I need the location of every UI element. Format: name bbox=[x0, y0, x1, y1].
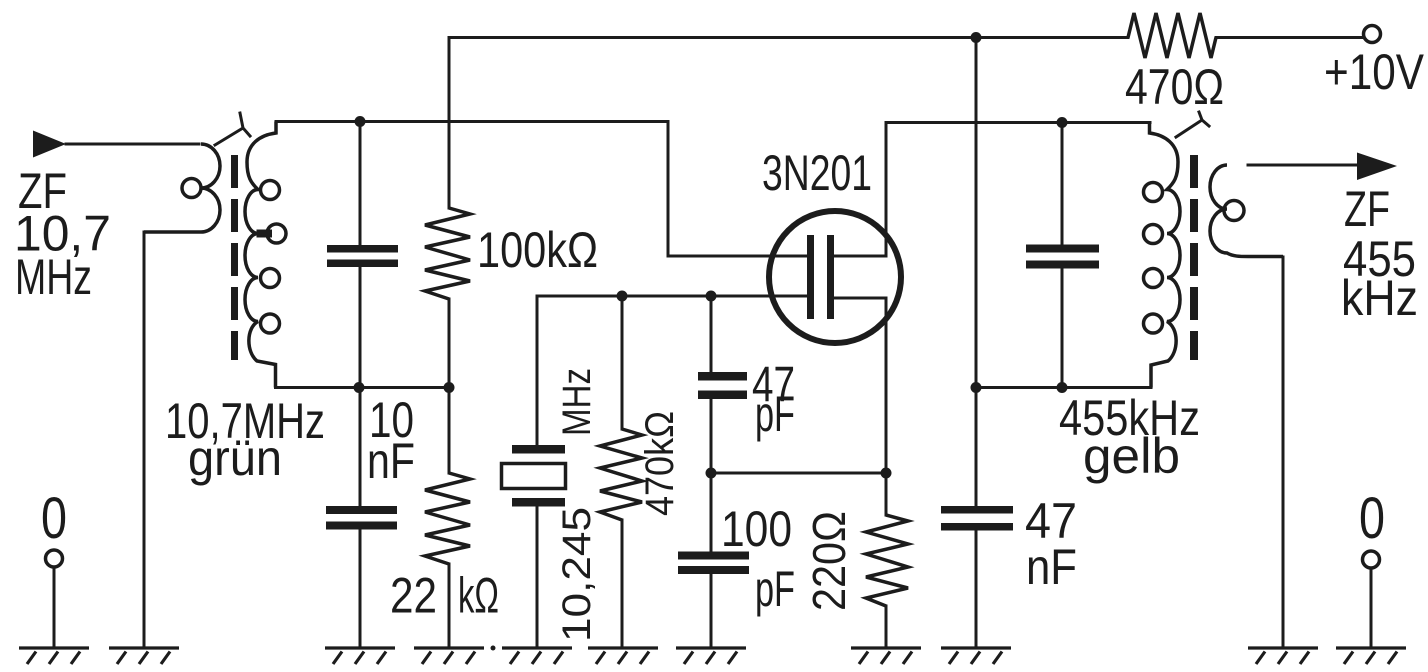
node dot source bus right bbox=[881, 468, 892, 479]
ground 4 bbox=[414, 648, 484, 664]
crystal Q1 plate bottom bbox=[512, 498, 565, 507]
wire source bus bbox=[711, 472, 886, 475]
wire 220R upper lead bbox=[885, 473, 888, 515]
wire 10nF upper lead bbox=[359, 388, 362, 507]
wire 47pF lower lead bbox=[710, 399, 713, 473]
ground 10 bbox=[1248, 648, 1318, 664]
capacitor 10nF plate bottom bbox=[326, 522, 397, 530]
wire left tank bottom bus bbox=[276, 386, 450, 389]
svg-text:pF: pF bbox=[755, 561, 795, 617]
transformer TR1 secondary loop 3 bbox=[261, 269, 280, 288]
node dot divider bbox=[444, 382, 455, 393]
ground 7 bbox=[676, 648, 746, 664]
resistor 470Ω bbox=[1128, 13, 1216, 58]
node dot 47pF top bbox=[706, 291, 717, 302]
node dot 10nF top bbox=[354, 382, 365, 393]
wire supply drop to 100k bbox=[448, 38, 451, 209]
transistor 3N201 channel bar bbox=[827, 235, 834, 319]
capacitor right tank plate bottom bbox=[1026, 261, 1099, 269]
terminal 0 left circle bbox=[46, 550, 63, 567]
capacitor 47nF plate bottom bbox=[941, 523, 1013, 531]
wire right tank cap lower lead bbox=[1061, 268, 1064, 388]
wire terminal 0 right to ground bbox=[1370, 569, 1373, 647]
node dot supply tank bottom bbox=[971, 382, 982, 393]
svg-text:10,245: 10,245 bbox=[555, 507, 599, 642]
capacitor 100pF plate top bbox=[678, 552, 749, 560]
svg-text:0: 0 bbox=[1359, 486, 1385, 551]
capacitor 47pF plate bottom bbox=[698, 391, 747, 400]
node dot right tank cap top bbox=[1057, 117, 1068, 128]
wire drain to right tank bbox=[886, 121, 1150, 124]
wire output line bbox=[1248, 164, 1360, 167]
ground 8 bbox=[851, 648, 921, 664]
svg-text:3N201: 3N201 bbox=[762, 145, 872, 201]
shield dash-dot dot bbox=[491, 646, 496, 651]
ground 5 bbox=[502, 648, 572, 664]
wire 220R lower lead bbox=[885, 606, 888, 647]
transistor 3N201 gate2 stub bbox=[772, 295, 807, 298]
wire gate2 bus bbox=[537, 296, 807, 445]
terminal 0 right circle bbox=[1363, 551, 1380, 568]
wire 100pF lower lead bbox=[710, 574, 713, 647]
transformer TR2 primary winding bbox=[1150, 123, 1181, 388]
transformer TR1 trimmer arrow bbox=[215, 113, 250, 145]
wire 470k upper lead bbox=[621, 296, 624, 429]
ground 3 bbox=[325, 648, 395, 664]
wire 22k to ground bbox=[448, 564, 451, 647]
transformer TR1 primary winding bbox=[144, 144, 220, 232]
ground 1 bbox=[19, 648, 89, 664]
node dot left tank top bbox=[355, 116, 366, 127]
capacitor left tank plate bottom bbox=[327, 260, 398, 268]
capacitor 10nF plate top bbox=[326, 506, 397, 514]
capacitor 47nF plate top bbox=[941, 506, 1013, 514]
ground 6 bbox=[588, 648, 658, 664]
transistor 3N201 source lead bbox=[834, 298, 886, 473]
wire left tank cap lower lead bbox=[359, 267, 362, 388]
svg-text:kHz: kHz bbox=[1341, 270, 1418, 326]
node dot supply rail bbox=[971, 32, 982, 43]
ground symbols bbox=[19, 648, 1406, 664]
resistor 470kΩ bbox=[600, 429, 642, 520]
svg-text:220Ω: 220Ω bbox=[803, 511, 855, 611]
wire terminal 0 left to ground bbox=[53, 568, 56, 647]
transformer TR1 secondary tap bar bbox=[257, 230, 273, 238]
wire 470k lower lead bbox=[621, 520, 624, 647]
wire gate1 from tank bbox=[668, 122, 807, 257]
svg-text:0: 0 bbox=[41, 486, 67, 551]
node dot source bus left bbox=[706, 468, 717, 479]
svg-text:MHz: MHz bbox=[15, 249, 92, 305]
wire 100k bottom to node bbox=[448, 299, 451, 473]
node dot right tank cap bottom bbox=[1057, 382, 1068, 393]
wire supply branch down bbox=[975, 38, 978, 507]
wire crystal lower lead bbox=[536, 507, 539, 648]
svg-text:MHz: MHz bbox=[555, 368, 599, 436]
transistor 3N201 circle bbox=[769, 211, 901, 343]
ground 11 bbox=[1336, 648, 1406, 664]
wire 100pF upper lead bbox=[710, 473, 713, 552]
svg-text:pF: pF bbox=[755, 386, 795, 442]
crystal Q1 plate top bbox=[512, 445, 565, 454]
svg-text:22: 22 bbox=[390, 568, 437, 624]
node dot 470k top bbox=[617, 291, 628, 302]
resistor 100kΩ bbox=[425, 208, 470, 299]
svg-text:+10V: +10V bbox=[1324, 44, 1425, 100]
ground 2 bbox=[109, 648, 179, 664]
svg-text:grün: grün bbox=[188, 430, 282, 486]
transformer TR2 secondary loop bbox=[1224, 201, 1244, 221]
capacitor left tank plate top bbox=[327, 245, 398, 253]
transformer TR2 primary loop 4 bbox=[1144, 314, 1163, 333]
wire +10V top rail left segment bbox=[449, 36, 1128, 39]
capacitor right tank plate top bbox=[1026, 245, 1099, 253]
wire left tank top bbox=[276, 120, 668, 123]
wire input line bbox=[66, 143, 199, 146]
transistor 3N201 drain lead bbox=[834, 123, 886, 257]
wire 47nF lower lead bbox=[975, 531, 978, 648]
wire 10nF lower lead bbox=[359, 530, 362, 648]
resistor 22kΩ bbox=[425, 473, 470, 564]
svg-text:kΩ: kΩ bbox=[458, 568, 499, 624]
wire primary return to ground bbox=[143, 232, 146, 647]
output arrow ZF 455 kHz bbox=[1357, 153, 1397, 181]
terminal +10V circle bbox=[1364, 26, 1381, 43]
svg-text:100kΩ: 100kΩ bbox=[477, 222, 598, 278]
wire top rail right segment to terminal bbox=[1216, 36, 1363, 39]
capacitor 47pF plate top bbox=[698, 372, 747, 381]
wire right tank bottom bus bbox=[976, 386, 1151, 389]
ground 9 bbox=[941, 648, 1011, 664]
transformer TR2 primary loop 1 bbox=[1144, 183, 1163, 202]
wire secondary return to ground bbox=[1282, 257, 1285, 647]
svg-text:ZF: ZF bbox=[1344, 181, 1390, 237]
transformer TR1 primary loop bbox=[182, 179, 201, 198]
transformer TR2 primary loop 2 bbox=[1144, 225, 1163, 244]
svg-text:470kΩ: 470kΩ bbox=[638, 411, 682, 516]
svg-text:gelb: gelb bbox=[1083, 428, 1180, 484]
svg-text:100: 100 bbox=[721, 501, 792, 557]
transformer TR1 secondary loop 2 bbox=[267, 224, 286, 243]
crystal Q1 body bbox=[502, 464, 566, 489]
resistor 220Ω bbox=[866, 515, 908, 606]
transformer TR1 secondary loop 4 bbox=[261, 314, 280, 333]
wire right tank cap upper lead bbox=[1061, 123, 1064, 246]
svg-text:470Ω: 470Ω bbox=[1125, 59, 1224, 115]
transistor 3N201 gate bar bbox=[807, 235, 814, 319]
transformer TR2 primary loop 3 bbox=[1144, 269, 1163, 288]
svg-text:nF: nF bbox=[1026, 539, 1077, 595]
transformer TR1 secondary winding bbox=[245, 122, 276, 388]
transformer TR2 trimmer arrow bbox=[1176, 112, 1209, 137]
wire left tank cap upper lead bbox=[359, 122, 362, 247]
svg-text:nF: nF bbox=[367, 433, 415, 489]
transformer TR1 core bbox=[231, 155, 238, 360]
transformer TR2 secondary winding bbox=[1210, 165, 1283, 257]
input arrow ZF 10,7 MHz bbox=[33, 131, 66, 158]
capacitor 100pF plate bottom bbox=[678, 566, 749, 574]
transformer TR1 secondary loop 1 bbox=[261, 181, 280, 200]
transformer TR2 core bbox=[1190, 155, 1198, 360]
wire 47pF upper lead bbox=[710, 296, 713, 372]
